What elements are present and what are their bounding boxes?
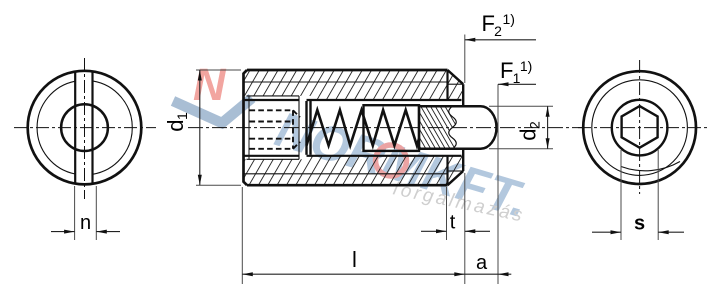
dim s <box>592 231 684 233</box>
centerline horizontal <box>578 127 708 129</box>
external thread thin line bottom <box>244 173 448 175</box>
RIGHT VIEW: hex socket end view <box>578 60 708 194</box>
pin outline <box>419 106 497 149</box>
thread end face <box>298 96 300 159</box>
dim d2 <box>489 106 553 149</box>
centerline horizontal <box>14 127 156 129</box>
watermark red ring <box>376 145 407 176</box>
right face bottom <box>462 150 464 171</box>
pin break wavy line <box>449 106 457 149</box>
dim l extension left <box>241 187 243 284</box>
LEFT VIEW: slotted end view <box>14 58 156 199</box>
thread major thin top <box>247 95 300 97</box>
slot line left <box>74 72 76 184</box>
face edge line bottom <box>448 170 464 172</box>
thread start face <box>248 96 250 159</box>
chamfer projection line bottom <box>446 156 448 185</box>
hole circle <box>61 104 108 151</box>
thread thin circle (gaps at slot) <box>37 81 132 174</box>
body left edge <box>244 70 248 185</box>
socket circle <box>612 100 668 156</box>
bore line bottom right <box>307 155 462 157</box>
outer circle <box>28 71 142 185</box>
thread major thin bottom <box>247 158 300 160</box>
dim n extension lines <box>75 186 97 240</box>
svg-text:a: a <box>476 252 488 274</box>
dim l <box>242 273 464 275</box>
outer circle <box>583 71 696 184</box>
body outline top <box>247 69 448 72</box>
hexagon <box>622 106 658 148</box>
svg-text:N: N <box>193 59 227 110</box>
svg-text:n: n <box>80 212 91 234</box>
body outline bottom <box>247 184 448 187</box>
thread thin circle <box>592 80 688 176</box>
pin skirt <box>364 105 420 151</box>
external thread thin line top <box>244 81 448 83</box>
spring end coil <box>305 101 307 155</box>
body hatch bottom wall <box>244 156 464 185</box>
dim F1 <box>497 84 499 284</box>
spring <box>307 110 420 146</box>
chamfer top right <box>448 70 464 84</box>
chamfer bottom right <box>448 171 464 185</box>
dim F2 <box>464 35 466 84</box>
hidden thread dashed lines <box>250 110 301 149</box>
dim n <box>51 231 120 233</box>
face edge line top <box>448 83 464 85</box>
pin back wall <box>418 106 420 149</box>
watermark blue swoosh <box>173 98 252 123</box>
svg-text:l: l <box>352 247 357 272</box>
chamfer arc <box>621 162 680 171</box>
chamfer projection line top <box>446 70 448 100</box>
dim d1 <box>196 70 241 185</box>
pin hatch <box>419 106 456 149</box>
centerline vertical <box>84 58 86 199</box>
dim t extension line right (body face) <box>464 173 466 284</box>
dim t extension line left <box>446 187 448 240</box>
dim t <box>421 230 490 232</box>
chamber wall <box>309 101 311 155</box>
bore line bottom left <box>244 155 300 157</box>
dim a <box>465 273 498 275</box>
bore line top right <box>307 99 462 101</box>
centerline vertical <box>639 60 641 194</box>
slot line right <box>91 71 93 184</box>
svg-text:t: t <box>450 212 456 234</box>
body hatch top wall <box>244 70 464 100</box>
centerline middle <box>188 127 585 129</box>
svg-text:s: s <box>634 213 645 235</box>
right face top <box>462 84 464 105</box>
dim s extension lines <box>621 150 658 240</box>
bore line top left <box>244 99 300 101</box>
